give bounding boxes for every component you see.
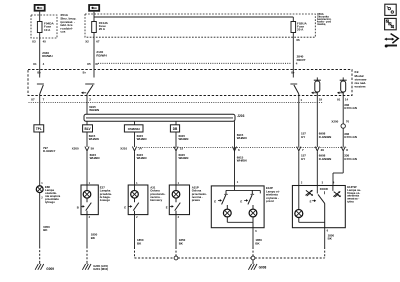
svg-text:X5: X5 — [87, 62, 91, 66]
svg-text:J203: J203 — [237, 114, 244, 118]
svg-text:E: E — [240, 199, 242, 203]
svg-text:WH/BN: WH/BN — [237, 159, 247, 163]
svg-text:20 A: 20 A — [99, 27, 106, 31]
svg-text:14: 14 — [345, 97, 349, 101]
svg-text:tylna: tylna — [347, 200, 354, 204]
svg-text:RD/WH: RD/WH — [42, 54, 52, 58]
svg-text:15: 15 — [180, 147, 184, 151]
svg-text:67: 67 — [95, 62, 99, 66]
svg-text:WH/BN: WH/BN — [179, 156, 189, 160]
svg-text:WH/BN: WH/BN — [179, 137, 189, 141]
svg-text:D-GN/BN: D-GN/BN — [319, 157, 332, 161]
svg-text:59: 59 — [91, 147, 95, 151]
svg-text:E: E — [166, 205, 168, 209]
svg-text:GY: GY — [301, 135, 305, 139]
svg-text:WH/BN: WH/BN — [90, 156, 100, 160]
svg-text:DB: DB — [173, 127, 178, 131]
svg-text:10 A: 10 A — [44, 28, 51, 32]
svg-text:cza: cza — [60, 30, 65, 34]
svg-text:D-GN/GY: D-GN/GY — [43, 149, 56, 153]
svg-text:B+: B+ — [83, 71, 87, 75]
svg-text:WH/BN: WH/BN — [89, 108, 99, 112]
svg-text:G201 (M10): G201 (M10) — [93, 267, 108, 271]
svg-text:GY/O-GN: GY/O-GN — [344, 157, 357, 161]
svg-text:X2: X2 — [85, 40, 89, 44]
svg-text:X200: X200 — [72, 147, 79, 151]
svg-text:TPL: TPL — [36, 127, 42, 131]
svg-text:WH/BN: WH/BN — [89, 137, 99, 141]
svg-text:OSI/EMH: OSI/EMH — [128, 127, 140, 131]
svg-text:67: 67 — [96, 40, 100, 44]
svg-text:X1: X1 — [33, 62, 37, 66]
svg-text:91: 91 — [337, 97, 341, 101]
svg-text:WH/BN: WH/BN — [137, 156, 147, 160]
svg-text:RD/WH: RD/WH — [96, 53, 106, 57]
svg-text:20 A: 20 A — [297, 28, 304, 32]
svg-text:woziem: woziem — [354, 85, 366, 89]
svg-text:GY: GY — [301, 157, 305, 161]
svg-text:66: 66 — [296, 38, 300, 42]
svg-text:45: 45 — [43, 40, 47, 44]
svg-text:E: E — [124, 205, 126, 209]
svg-text:X200: X200 — [331, 120, 338, 124]
svg-text:prawa: prawa — [192, 198, 201, 202]
svg-text:E: E — [310, 200, 312, 204]
svg-text:X210: X210 — [120, 147, 127, 151]
svg-text:DOOR: DOOR — [320, 187, 328, 191]
svg-text:G009: G009 — [46, 267, 54, 271]
svg-text:D-GN/BN: D-GN/BN — [319, 135, 332, 139]
svg-text:B+: B+ — [291, 71, 295, 75]
svg-text:GY/O-GN: GY/O-GN — [344, 106, 357, 110]
svg-text:przód: przód — [266, 199, 274, 203]
svg-text:29: 29 — [321, 148, 325, 152]
svg-text:WH/BN: WH/BN — [237, 136, 247, 140]
svg-text:kierowcy: kierowcy — [150, 198, 162, 202]
svg-text:tylnego: tylnego — [45, 200, 55, 204]
svg-text:X3: X3 — [32, 40, 36, 44]
svg-text:19: 19 — [319, 97, 323, 101]
svg-text:X7: X7 — [31, 97, 35, 101]
svg-text:70: 70 — [346, 120, 350, 124]
svg-text:E: E — [214, 199, 216, 203]
svg-text:B+: B+ — [37, 71, 41, 75]
svg-text:RD/VT: RD/VT — [297, 58, 306, 62]
svg-text:BLV: BLV — [85, 127, 92, 131]
svg-text:G008: G008 — [259, 266, 267, 270]
svg-text:maską: maską — [317, 22, 326, 26]
svg-text:B: B — [77, 205, 79, 209]
svg-text:GY/O-GN: GY/O-GN — [344, 135, 357, 139]
svg-text:WH/BN: WH/BN — [137, 137, 147, 141]
svg-text:żowego: żowego — [100, 198, 111, 202]
